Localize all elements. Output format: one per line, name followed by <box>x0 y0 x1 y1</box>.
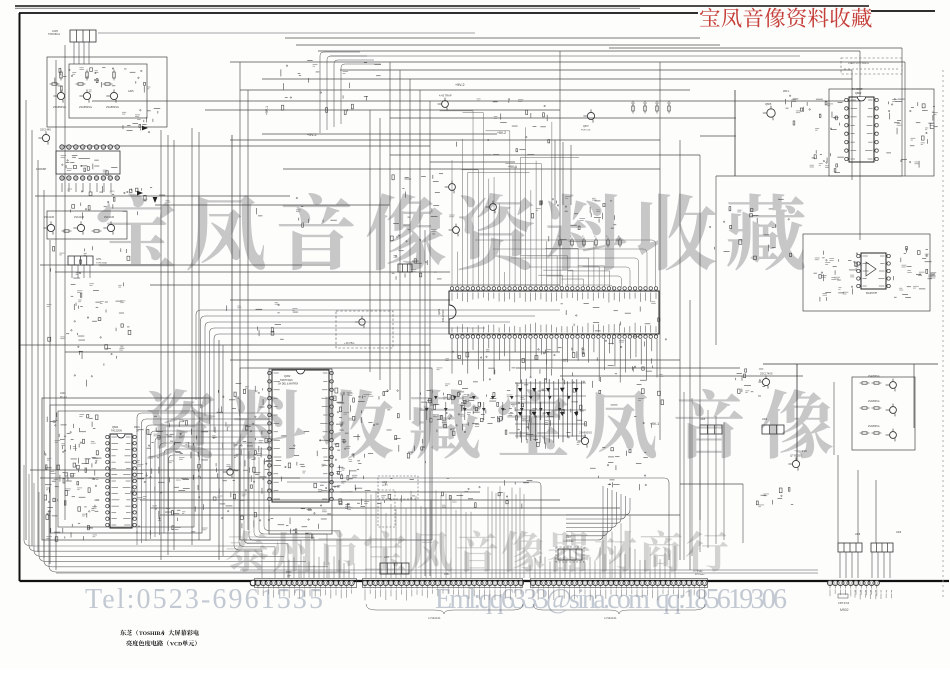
svg-text:Q? 850SG: Q? 850SG <box>790 453 802 457</box>
svg-text:Q80?: Q80? <box>583 126 589 128</box>
svg-text:25P: 25P <box>287 576 291 578</box>
svg-text:Q302: Q302 <box>284 374 291 378</box>
svg-text:Q802: Q802 <box>855 91 862 95</box>
svg-text:L80?: L80? <box>566 537 572 539</box>
svg-text:P451: P451 <box>444 573 450 576</box>
svg-text:+9V-2: +9V-2 <box>455 83 465 87</box>
svg-text:4P2.5mm: 4P2.5mm <box>695 574 705 576</box>
svg-text:14 SIGNAL: 14 SIGNAL <box>604 617 617 620</box>
svg-text:4.43 TRAP: 4.43 TRAP <box>439 94 452 98</box>
svg-text:Q805: Q805 <box>765 102 772 106</box>
svg-text:2SA850SG: 2SA850SG <box>868 425 880 428</box>
svg-text:TOROIDAL: TOROIDAL <box>48 33 61 36</box>
svg-text:2SA850SG: 2SA850SG <box>79 105 92 109</box>
svg-text:+5V-2: +5V-2 <box>307 133 317 137</box>
svg-text:M902: M902 <box>840 608 849 612</box>
svg-text:2SC1740S: 2SC1740S <box>760 371 773 375</box>
svg-text:L906: L906 <box>762 419 768 421</box>
svg-text:PC-L1: PC-L1 <box>60 396 67 399</box>
svg-text:L602: L602 <box>60 392 66 395</box>
svg-text:L909: L909 <box>896 532 902 534</box>
svg-text:GR/5: GR/5 <box>128 90 134 93</box>
svg-text:2SA850SG: 2SA850SG <box>53 105 66 109</box>
svg-text:2SC1445: 2SC1445 <box>104 216 115 219</box>
svg-text:2SC1445: 2SC1445 <box>74 216 85 219</box>
svg-text:Eml:qq6333@sina.com qq:185619: Eml:qq6333@sina.com qq:185619306 <box>435 584 787 615</box>
svg-text:PL-L7: PL-L7 <box>382 485 389 487</box>
svg-text:+9V-1: +9V-1 <box>650 422 659 426</box>
svg-text:VCD: VCD <box>170 642 182 648</box>
svg-text:2SA850SG: 2SA850SG <box>106 105 119 109</box>
svg-text:Q201: Q201 <box>437 308 441 315</box>
svg-text:L905: L905 <box>700 419 706 421</box>
svg-text:1H DEL & MATRIX: 1H DEL & MATRIX <box>278 383 298 386</box>
svg-text:2SC1445: 2SC1445 <box>44 216 55 219</box>
svg-text:POR COL: POR COL <box>581 130 592 132</box>
svg-text:2SA850SG: 2SA850SG <box>868 375 880 378</box>
svg-text:RC4577P: RC4577P <box>866 291 878 295</box>
svg-text:TOSHIBA: TOSHIBA <box>139 631 164 637</box>
svg-text:CRT.D 64: CRT.D 64 <box>838 601 850 605</box>
svg-text:2SA850SG: 2SA850SG <box>579 430 592 434</box>
svg-text:Tel:0523-6961535: Tel:0523-6961535 <box>85 584 323 615</box>
svg-text:+9V-1: +9V-1 <box>265 106 269 115</box>
svg-text:2SC1445: 2SC1445 <box>40 127 51 131</box>
svg-text:14 SIGNAL: 14 SIGNAL <box>428 617 441 620</box>
svg-text:+.FF PB-1: +.FF PB-1 <box>344 343 355 345</box>
svg-text:TA1220N: TA1220N <box>111 429 122 433</box>
svg-text:P101: P101 <box>697 570 703 573</box>
svg-text:L807: L807 <box>384 557 390 559</box>
svg-text:TA8772AN: TA8772AN <box>280 378 293 382</box>
svg-text:WR-L: WR-L <box>783 89 790 93</box>
svg-text:+5V-2: +5V-2 <box>497 131 506 135</box>
svg-text:TOROIDAL: TOROIDAL <box>96 262 108 265</box>
svg-text:TA1270AN: TA1270AN <box>441 309 445 322</box>
svg-text:TOROIDAL: TOROIDAL <box>563 540 574 543</box>
svg-text:2.2K: 2.2K <box>802 450 807 453</box>
svg-text:Q601: Q601 <box>112 425 119 429</box>
svg-text:2SA850SG: 2SA850SG <box>868 400 880 403</box>
svg-text:L871: L871 <box>96 258 102 261</box>
svg-text:START STOP WRCH: START STOP WRCH <box>848 62 869 65</box>
svg-text:+9V-1: +9V-1 <box>508 165 517 169</box>
svg-text:TA4339P: TA4339P <box>852 87 863 91</box>
svg-text:4069UBP: 4069UBP <box>36 168 47 171</box>
